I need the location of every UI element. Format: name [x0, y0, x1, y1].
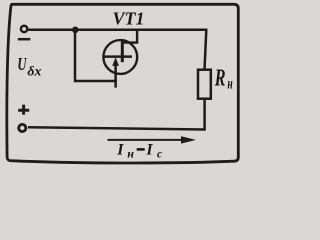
transistor VT1: [103, 30, 137, 74]
svg-text:δх: δх: [27, 64, 41, 79]
minus sign: [18, 38, 31, 41]
node junction gate tap: [72, 27, 79, 34]
current arrow: [108, 139, 183, 141]
wire gate loop: [75, 30, 117, 88]
svg-text:VT1: VT1: [113, 9, 145, 29]
label Iн = Iс: [116, 142, 162, 161]
terminal input minus: [21, 26, 27, 32]
resistor Rн: [198, 70, 211, 99]
svg-text:I: I: [145, 142, 153, 159]
terminal input plus: [19, 124, 26, 131]
wire bottom rail: [28, 99, 205, 130]
label Rн: [214, 65, 233, 92]
svg-text:н: н: [227, 75, 232, 92]
label Uвх: [17, 55, 41, 79]
wire top rail: [28, 30, 206, 70]
svg-text:U: U: [17, 55, 27, 75]
svg-text:с: с: [157, 148, 162, 160]
svg-text:I: I: [116, 142, 124, 159]
plus sign: [18, 105, 29, 115]
svg-text:R: R: [214, 65, 226, 91]
svg-text:н: н: [127, 146, 134, 160]
